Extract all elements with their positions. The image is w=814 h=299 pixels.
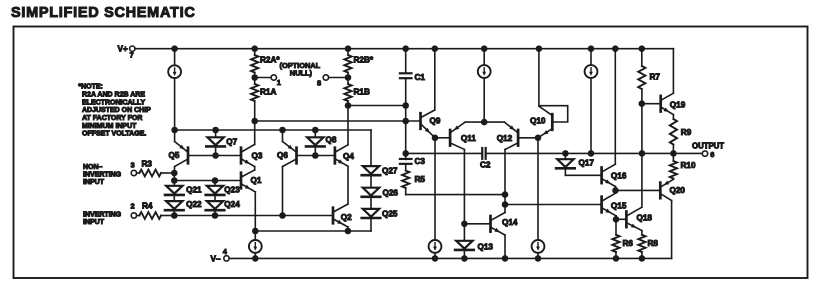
- svg-text:MINIMUM INPUT: MINIMUM INPUT: [82, 123, 137, 130]
- svg-text:R10: R10: [681, 161, 696, 170]
- svg-text:8: 8: [317, 78, 321, 87]
- svg-text:Q23: Q23: [224, 186, 240, 195]
- svg-text:Q14: Q14: [502, 218, 518, 227]
- svg-text:SIMPLIFIED SCHEMATIC: SIMPLIFIED SCHEMATIC: [11, 5, 196, 21]
- svg-text:Q11: Q11: [461, 134, 476, 143]
- svg-text:C2: C2: [480, 160, 491, 169]
- svg-text:Q12: Q12: [497, 134, 513, 143]
- svg-text:Q15: Q15: [611, 201, 627, 210]
- svg-text:Q21: Q21: [186, 186, 202, 195]
- svg-text:Q24: Q24: [224, 200, 240, 209]
- svg-text:1: 1: [277, 78, 281, 87]
- svg-text:Q13: Q13: [478, 243, 494, 252]
- svg-text:Q27: Q27: [382, 167, 398, 176]
- svg-text:INVERTING: INVERTING: [83, 171, 122, 178]
- svg-text:Q18: Q18: [637, 214, 653, 223]
- svg-text:Q17: Q17: [579, 159, 595, 168]
- svg-text:C3: C3: [415, 157, 426, 166]
- svg-text:OFFSET VOLTAGE.: OFFSET VOLTAGE.: [82, 131, 146, 138]
- svg-text:Q16: Q16: [611, 172, 627, 181]
- svg-text:R4: R4: [142, 202, 153, 211]
- svg-text:3: 3: [131, 160, 135, 169]
- svg-text:Q1: Q1: [251, 176, 262, 185]
- svg-text:OUTPUT: OUTPUT: [692, 142, 724, 151]
- svg-text:Q6: Q6: [277, 151, 288, 160]
- svg-text:Q2: Q2: [341, 213, 352, 222]
- svg-text:Q26: Q26: [383, 188, 399, 197]
- svg-text:INPUT: INPUT: [83, 219, 105, 226]
- svg-text:R3: R3: [142, 160, 153, 169]
- svg-text:6: 6: [710, 150, 714, 159]
- svg-text:Q5: Q5: [169, 151, 180, 160]
- svg-text:7: 7: [130, 51, 134, 60]
- svg-text:R1A: R1A: [260, 88, 276, 97]
- svg-text:R6: R6: [623, 239, 634, 248]
- svg-text:V+: V+: [118, 44, 128, 53]
- svg-text:AT FACTORY FOR: AT FACTORY FOR: [82, 115, 142, 122]
- svg-text:Q19: Q19: [670, 100, 686, 109]
- svg-text:R7: R7: [650, 73, 661, 82]
- svg-text:C1: C1: [415, 73, 426, 82]
- svg-text:R2B*: R2B*: [354, 56, 374, 65]
- svg-text:Q10: Q10: [530, 117, 546, 126]
- svg-text:R5: R5: [415, 175, 426, 184]
- svg-text:Q22: Q22: [186, 200, 202, 209]
- svg-text:R1B: R1B: [354, 88, 370, 97]
- svg-text:R9: R9: [681, 128, 692, 137]
- svg-text:ADJUSTED ON CHIP: ADJUSTED ON CHIP: [82, 107, 151, 114]
- svg-text:NULL): NULL): [290, 68, 313, 77]
- svg-text:Q9: Q9: [430, 117, 441, 126]
- svg-text:R8: R8: [648, 239, 659, 248]
- svg-text:Q20: Q20: [670, 186, 686, 195]
- svg-text:NON–: NON–: [83, 164, 103, 171]
- svg-text:2: 2: [131, 202, 135, 211]
- svg-text:Q25: Q25: [382, 209, 398, 218]
- svg-text:INPUT: INPUT: [83, 179, 105, 186]
- svg-text:Q8: Q8: [326, 136, 337, 145]
- svg-text:ELECTRONICALLY: ELECTRONICALLY: [82, 99, 145, 106]
- svg-text:V–: V–: [211, 254, 221, 263]
- svg-text:R2A*: R2A*: [260, 56, 280, 65]
- svg-text:R2A AND R2B ARE: R2A AND R2B ARE: [82, 91, 145, 98]
- svg-text:*NOTE:: *NOTE:: [78, 83, 103, 90]
- svg-text:Q7: Q7: [226, 138, 237, 147]
- svg-text:Q4: Q4: [343, 152, 354, 161]
- svg-text:INVERTING: INVERTING: [83, 211, 122, 218]
- svg-text:Q3: Q3: [252, 152, 263, 161]
